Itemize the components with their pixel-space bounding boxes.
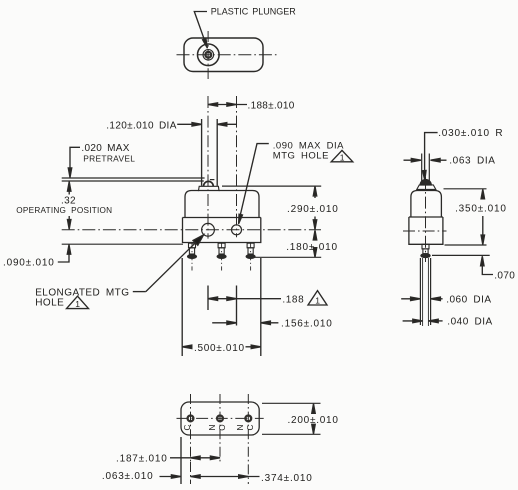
leader .090 max dia to hole2 (240, 144, 269, 219)
dim .063 leader+arrow (160, 476, 181, 478)
plunger mid circle (203, 50, 214, 61)
svg-text:MTG HOLE: MTG HOLE (273, 150, 329, 161)
svg-text:.374±.010: .374±.010 (261, 473, 313, 484)
mounting hole H2 (232, 225, 242, 235)
svg-text:PLASTIC PLUNGER: PLASTIC PLUNGER (211, 7, 297, 17)
hole1 centerline extended for dims (190, 462, 192, 484)
plunger shaft (side) (421, 154, 423, 182)
svg-text:.030±.010 R: .030±.010 R (438, 128, 503, 139)
flag triangle 1 (mtg hole) (331, 150, 353, 161)
lower extension line: body left edge (181, 258, 183, 356)
lower extension line: hole1 (207, 286, 209, 311)
plunger dome (side, filled) (420, 180, 431, 186)
leader .030 R (425, 133, 438, 172)
terminal T3 (246, 243, 255, 271)
dim .180: extension line bottom (terminal bottoms) (253, 256, 321, 258)
top view horizontal centerline (177, 54, 277, 56)
plunger outer circle (top view) (198, 44, 220, 66)
lower extension line: hole2 (236, 286, 238, 326)
side horizontal centerline (403, 230, 447, 232)
dim .060 DIA (401, 298, 419, 300)
svg-text:.350±.010: .350±.010 (455, 204, 507, 215)
side vertical centerline (425, 177, 427, 262)
dim .120 DIA: extension lines (201, 119, 203, 186)
svg-text:.188±.010: .188±.010 (248, 101, 295, 112)
front body lower section (183, 218, 261, 243)
side body upper section (411, 191, 442, 218)
svg-text:.290±.010: .290±.010 (287, 204, 339, 215)
dim .180 dimension line (314, 231, 316, 236)
dim .070 leader (482, 265, 493, 275)
dim .070: extension line (terminal bottom) (432, 254, 490, 256)
bottom left edge extension (180, 437, 182, 484)
pretravel line (62, 180, 204, 182)
front body step line (183, 217, 261, 219)
dim .290 right: extension line top (222, 185, 321, 187)
top view switch body outline (184, 38, 263, 72)
svg-text:C: C (183, 424, 192, 430)
side body step line (409, 216, 443, 218)
bottom hole B3 (NC) (245, 416, 251, 422)
dim .350: extension lines (444, 188, 487, 190)
dim .350 dimension line (482, 190, 484, 199)
bottom hole B2 (NO) (217, 416, 223, 422)
vertical centerline through hole2 (236, 96, 238, 237)
plunger cap (front) (199, 186, 220, 190)
terminal T1 (187, 243, 196, 271)
svg-text:OPERATING POSITION: OPERATING POSITION (16, 206, 112, 215)
svg-text:N: N (208, 424, 217, 430)
svg-text:.156±.010: .156±.010 (281, 319, 333, 330)
side body lower section (409, 217, 443, 244)
dim .32 OPERATING POSITION (68, 183, 70, 195)
plunger dome (front) (204, 181, 214, 186)
free position line stub right of dome (210, 179, 215, 181)
terminal wires (side) (419, 258, 421, 325)
svg-text:.090±.010: .090±.010 (3, 257, 55, 268)
dim .290 dimension line (314, 187, 316, 198)
dim .090 left: extension line (62, 243, 183, 245)
front body upper section outline (185, 191, 259, 218)
elongated mounting hole H1 (202, 223, 215, 236)
dim .500: dimension line (182, 346, 192, 348)
svg-text:C: C (246, 424, 255, 430)
dim .200: extension lines (262, 402, 321, 404)
svg-text:PRETRAVEL: PRETRAVEL (83, 154, 135, 164)
dim .188 lower: dimension line + leader (208, 298, 281, 300)
dim .156: arrows + leader (212, 322, 235, 324)
svg-text:1: 1 (315, 295, 320, 305)
lower extension line: body right edge (260, 258, 262, 356)
svg-text:.063±.010: .063±.010 (102, 471, 154, 482)
svg-text:.500±.010: .500±.010 (194, 343, 245, 354)
svg-text:.188: .188 (282, 295, 304, 306)
bottom hole B1 (C) (188, 416, 194, 422)
svg-text:.32: .32 (61, 195, 76, 206)
svg-text:.020 MAX: .020 MAX (81, 143, 129, 154)
dim .090 left: leader (58, 249, 69, 262)
leader elongated mtg hole to hole1 (133, 291, 146, 293)
bottom view horizontal centerline (177, 417, 264, 419)
svg-text:HOLE: HOLE (35, 297, 64, 308)
leader: PLASTIC PLUNGER (194, 12, 207, 44)
dim .200 dimension line (313, 404, 315, 410)
vertical centerline through plunger/hole1 (207, 96, 209, 239)
dim .040 DIA (403, 320, 422, 322)
svg-text:.063 DIA: .063 DIA (449, 156, 495, 167)
flag triangle 1 (.188) (308, 291, 327, 305)
dim .063 DIA arrows (404, 159, 420, 161)
dim .188 top: dimension line (208, 104, 247, 106)
top view vertical centerline (207, 31, 209, 79)
dim .374: dimension line (191, 476, 260, 478)
svg-text:.070: .070 (494, 270, 515, 281)
svg-text:.040 DIA: .040 DIA (447, 317, 492, 328)
plunger cap (side) (417, 185, 436, 190)
dim .020 MAX PRETRAVEL: bracket (70, 147, 80, 169)
svg-text:1: 1 (340, 152, 345, 162)
mounting hole centerline (horizontal) (62, 229, 321, 231)
svg-text:.180±.010: .180±.010 (286, 242, 338, 253)
flag triangle 1 (elongated) (67, 296, 89, 308)
svg-text:N: N (236, 424, 245, 430)
free position line (62, 177, 205, 179)
svg-text:.120±.010 DIA: .120±.010 DIA (106, 120, 176, 131)
svg-text:.200±.010: .200±.010 (288, 415, 339, 426)
bottom view body outline (181, 402, 259, 435)
dim .120 DIA: leader+arrows (177, 123, 200, 125)
terminal T2 (217, 243, 226, 271)
svg-text:O: O (218, 424, 227, 430)
svg-text:.060 DIA: .060 DIA (446, 294, 491, 305)
dim .187: dimension line (170, 457, 220, 459)
svg-text:.187±.010: .187±.010 (116, 454, 168, 465)
svg-text:1: 1 (75, 299, 80, 309)
side terminal (421, 244, 430, 257)
plunger inner ring (205, 52, 211, 58)
